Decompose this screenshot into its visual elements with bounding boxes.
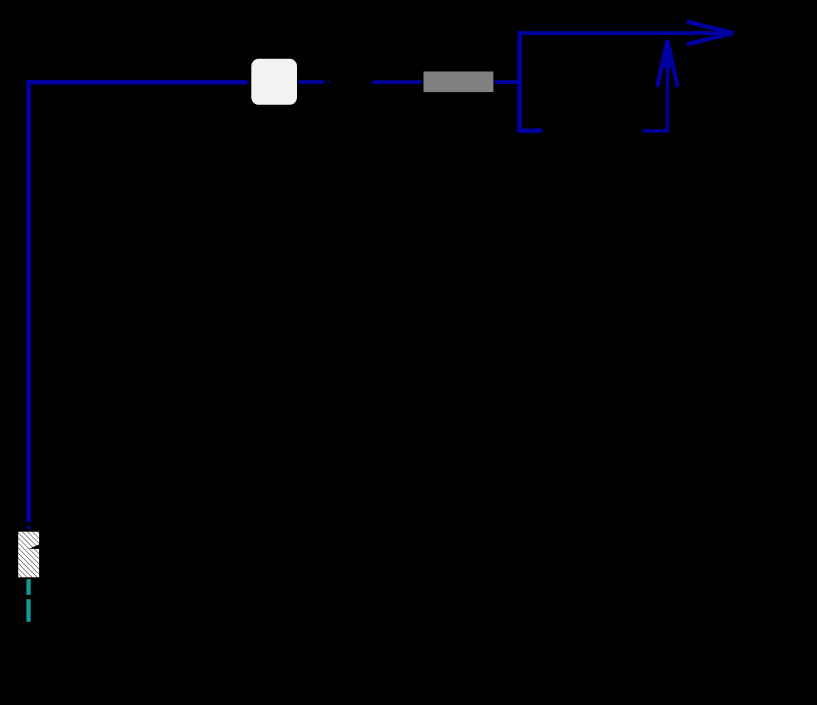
arrowhead: open arrow pointing up <box>657 40 667 87</box>
bracket assembly (meter / source symbol) <box>517 22 733 133</box>
bracket left vertical <box>517 31 522 133</box>
component: hatched load box <box>18 532 39 578</box>
resistor: gray box <box>424 72 494 93</box>
bracket right foot <box>643 129 669 132</box>
bracket top line (shaft of right arrow) <box>517 31 733 35</box>
wire: main L-shaped net from top bus down left side <box>29 82 248 522</box>
wire: dashed segment right of white square <box>299 80 422 84</box>
node: white rounded square component <box>251 59 297 105</box>
arrowhead: open arrow pointing right <box>687 22 734 33</box>
bracket left foot <box>517 128 542 133</box>
wire: teal dashed stub below hatched box <box>26 579 30 622</box>
up arrow shaft <box>666 43 669 132</box>
wire: gray box to bracket <box>495 80 518 84</box>
notch wedge in hatched box <box>29 544 39 549</box>
arrowhead: small down arrow at bottom of left wire <box>26 526 31 531</box>
